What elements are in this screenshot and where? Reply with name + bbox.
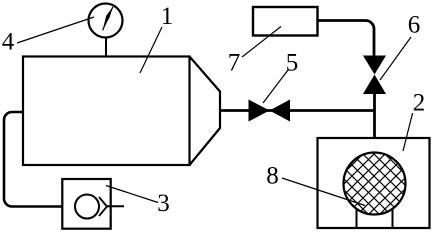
pump 3 arrowhead [99, 197, 107, 216]
tank 1 (receiver vessel body) [23, 57, 190, 166]
pump 3 outlet stub [107, 205, 124, 207]
wire: pipe from tank left side to pump 3 [4, 112, 63, 207]
pedestal lines under circle 8 [356, 208, 358, 228]
tank 1 cone outlet [190, 57, 221, 166]
pump 3 circle [75, 195, 99, 219]
leader line for label 5 [263, 70, 288, 103]
leader line for label 1 [140, 27, 162, 73]
svg-text:7: 7 [228, 50, 241, 77]
wire: pipe from 7 to valve 6 [318, 21, 375, 57]
wire: main pipe from cone to junction [220, 109, 375, 112]
component 7 box [253, 7, 318, 36]
leader line for label 2 [403, 113, 413, 151]
svg-text:2: 2 [413, 90, 426, 117]
leader line for label 7 [242, 27, 281, 58]
valve 5 (horizontal globe valve) [249, 100, 270, 122]
svg-text:6: 6 [408, 12, 421, 39]
valve 6 (vertical valve) [363, 56, 386, 75]
svg-text:8: 8 [266, 163, 279, 190]
box 2 (chamber) [318, 138, 430, 228]
leader line for label 6 [380, 37, 411, 80]
svg-text:3: 3 [157, 190, 170, 217]
gauge 4 needle [103, 7, 113, 30]
pump 3 box [62, 179, 110, 229]
leader line for label 8 [282, 178, 365, 206]
pressure gauge 4 body [89, 4, 123, 38]
svg-text:1: 1 [161, 3, 174, 30]
circle 8 (hatched ball) [344, 153, 406, 215]
svg-text:5: 5 [286, 50, 299, 77]
wire: pipe from valve 6 down into box 2 [373, 93, 376, 139]
gauge 4 stem [105, 38, 107, 58]
svg-text:4: 4 [2, 29, 15, 56]
leader line for label 3 [106, 186, 158, 203]
leader line for label 4 [17, 17, 94, 43]
